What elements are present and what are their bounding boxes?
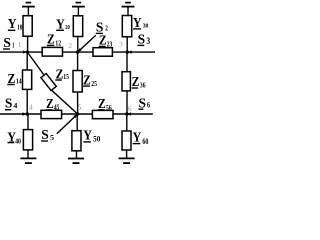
svg-text:45: 45 xyxy=(54,104,60,112)
svg-text:14: 14 xyxy=(16,78,22,86)
svg-text:2: 2 xyxy=(105,25,108,33)
svg-text:Z: Z xyxy=(8,72,16,87)
svg-text:23: 23 xyxy=(107,40,113,48)
svg-text:S: S xyxy=(41,128,49,143)
svg-text:5: 5 xyxy=(50,133,54,142)
svg-text:4: 4 xyxy=(13,101,17,110)
svg-text:Z: Z xyxy=(46,97,54,112)
svg-text:Y: Y xyxy=(133,131,142,146)
svg-text:10: 10 xyxy=(17,24,23,32)
svg-text:50: 50 xyxy=(93,135,100,144)
svg-text:3: 3 xyxy=(119,40,123,48)
svg-text:Y: Y xyxy=(83,129,92,144)
svg-text:S: S xyxy=(5,97,13,112)
svg-text:S: S xyxy=(3,36,11,51)
svg-text:Y: Y xyxy=(8,17,17,32)
svg-text:Z: Z xyxy=(56,67,64,82)
svg-text:Z: Z xyxy=(47,33,55,48)
svg-text:S: S xyxy=(96,21,104,36)
svg-text:4: 4 xyxy=(29,103,33,111)
svg-text:20: 20 xyxy=(65,25,70,31)
svg-text:1: 1 xyxy=(18,41,22,49)
svg-text:3: 3 xyxy=(146,36,150,46)
svg-text:60: 60 xyxy=(142,137,148,146)
svg-text:Y: Y xyxy=(56,18,65,33)
svg-text:Y: Y xyxy=(133,16,142,31)
svg-text:36: 36 xyxy=(140,81,146,89)
svg-text:1: 1 xyxy=(12,42,15,50)
svg-text:40: 40 xyxy=(15,138,21,146)
svg-text:6: 6 xyxy=(128,105,132,113)
svg-text:15: 15 xyxy=(63,73,69,81)
svg-text:Z: Z xyxy=(83,73,91,88)
svg-text:S: S xyxy=(139,97,147,112)
svg-text:25: 25 xyxy=(91,80,97,88)
svg-text:Z: Z xyxy=(132,75,140,90)
svg-text:12: 12 xyxy=(55,39,61,47)
svg-text:56: 56 xyxy=(106,104,112,112)
svg-text:Z: Z xyxy=(99,34,107,49)
svg-text:30: 30 xyxy=(143,23,149,30)
svg-text:2: 2 xyxy=(69,42,73,50)
svg-text:6: 6 xyxy=(147,101,150,110)
svg-text:S: S xyxy=(138,32,146,47)
svg-text:Z: Z xyxy=(98,97,106,112)
svg-text:5: 5 xyxy=(78,103,82,111)
